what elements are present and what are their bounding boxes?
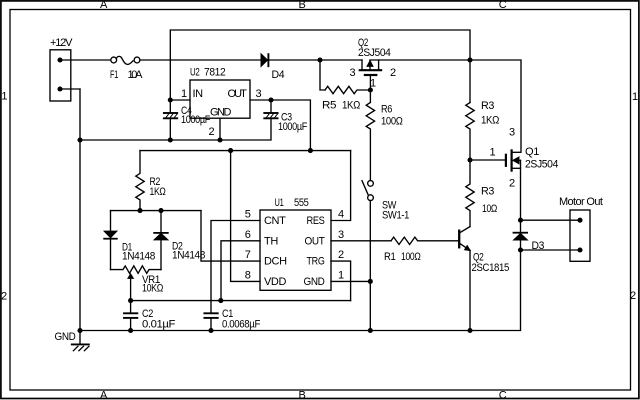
svg-text:0.0068µF: 0.0068µF (222, 319, 261, 331)
svg-text:2: 2 (1, 291, 7, 303)
switch SW1-1 (362, 181, 373, 201)
diode D4 (261, 54, 268, 66)
svg-text:3: 3 (338, 229, 344, 241)
svg-text:1: 1 (490, 147, 496, 159)
svg-text:Q1: Q1 (525, 146, 539, 158)
svg-text:VDD: VDD (264, 276, 286, 288)
svg-text:CNT: CNT (264, 215, 286, 227)
svg-text:7: 7 (245, 249, 251, 261)
svg-text:SW1-1: SW1-1 (382, 210, 409, 222)
wire R3 top lead from rail dot (469, 60, 471, 103)
wire U2 pin3 out (250, 100, 310, 151)
wire Q1 gate (470, 159, 505, 161)
resistor R3 1K (466, 103, 474, 161)
node dot Q2 gate R5 (368, 87, 373, 92)
svg-text:2SJ504: 2SJ504 (358, 47, 391, 59)
svg-text:0.01µF: 0.01µF (142, 319, 176, 331)
node dot D4 cathode rail (317, 57, 322, 62)
wire top loop from x=170 to x=470 (170, 30, 470, 100)
wire Q2 emitter to ground bus (469, 250, 471, 330)
svg-text:R6: R6 (381, 104, 392, 116)
wire +12V top terminal to fuse (60, 59, 111, 61)
svg-text:DCH: DCH (264, 256, 287, 268)
svg-text:6: 6 (245, 229, 251, 241)
svg-text:3: 3 (509, 127, 515, 139)
svg-text:3: 3 (256, 88, 262, 100)
wire U1 pin6 TH (221, 241, 260, 301)
node dot motor top (518, 218, 523, 223)
svg-text:555: 555 (294, 197, 309, 209)
node dot +12V bottom terminal (57, 86, 62, 91)
svg-text:4: 4 (338, 209, 344, 221)
diode D3 (514, 233, 528, 240)
svg-text:D4: D4 (272, 69, 285, 81)
ground symbol (72, 331, 89, 351)
node dot TH bus (218, 298, 223, 303)
capacitor C3 (264, 100, 277, 118)
svg-text:A: A (100, 0, 108, 11)
capacitor C2 (124, 301, 137, 331)
svg-text:1KΩ: 1KΩ (481, 115, 499, 127)
wire fuse to D4 anode (140, 59, 261, 61)
svg-text:1000µF: 1000µF (181, 114, 211, 126)
svg-text:TH: TH (264, 235, 278, 247)
wire +12V bottom terminal right (60, 88, 80, 90)
node dot rail VDD (228, 148, 233, 153)
svg-text:2SC1815: 2SC1815 (472, 262, 510, 274)
svg-text:A: A (100, 390, 108, 400)
svg-text:100Ω: 100Ω (401, 251, 421, 263)
wire D3 anode down corner to ground bus (470, 240, 521, 331)
node dot C1 bottom (208, 328, 213, 333)
svg-text:B: B (299, 0, 306, 11)
resistor R5 (325, 86, 370, 93)
svg-text:2: 2 (209, 126, 215, 138)
diode D2 (154, 211, 168, 270)
svg-text:1N4148: 1N4148 (172, 250, 205, 262)
node dot 555 gnd bus (368, 328, 373, 333)
svg-text:U1: U1 (275, 197, 284, 209)
node dot motor terminal top (577, 218, 582, 223)
wire motor out top (521, 219, 581, 221)
fuse F1 (111, 56, 140, 64)
svg-text:3: 3 (350, 67, 356, 79)
svg-text:GND: GND (304, 276, 325, 288)
svg-text:C: C (499, 0, 507, 11)
node dot R3 junction gate Q1 (467, 157, 472, 162)
svg-text:U2: U2 (190, 67, 200, 79)
capacitor C1 (204, 313, 217, 330)
wire ground bus (80, 330, 470, 332)
svg-text:GND: GND (210, 107, 231, 119)
svg-text:C: C (499, 390, 507, 400)
wire U1 pin1 GND (331, 280, 370, 282)
wire R5 left vertical from rail (320, 60, 325, 90)
svg-text:R5: R5 (322, 100, 336, 112)
svg-text:2SJ504: 2SJ504 (525, 159, 558, 171)
wire 12V rail y=150 (140, 150, 351, 152)
wire Q2 drain rail to corner x=521 (370, 60, 521, 152)
wire U1 pin3 OUT to R1 (331, 240, 391, 242)
svg-text:2: 2 (338, 249, 344, 261)
node dot C2 bottom (128, 328, 133, 333)
node dot motor terminal bottom (577, 247, 582, 252)
node dot x80 y140 (77, 137, 82, 142)
svg-text:TRG: TRG (307, 256, 325, 268)
svg-text:OUT: OUT (228, 88, 248, 100)
svg-text:10A: 10A (128, 69, 144, 81)
node dot 555 gnd (368, 279, 373, 284)
svg-text:R3: R3 (481, 100, 494, 112)
mosfet Q1 2SJ504 (506, 150, 521, 170)
wire ground bus y=140 (80, 119, 271, 140)
svg-text:8: 8 (245, 269, 251, 281)
diode D1 (104, 211, 117, 270)
wire U1 pin4 RES (331, 151, 351, 221)
wire U1 pin5 CNT to C1 (211, 221, 260, 313)
wire Q1 drain down through D3 (520, 160, 522, 232)
svg-text:R3: R3 (481, 186, 494, 198)
svg-text:10KΩ: 10KΩ (142, 283, 163, 295)
resistor R1 (391, 237, 458, 244)
svg-text:R1: R1 (384, 251, 396, 263)
capacitor C4 (164, 100, 177, 140)
wire diode anode bus y=210 (111, 210, 202, 212)
svg-text:RES: RES (307, 215, 325, 227)
wire U1 pin7 DCH (201, 211, 260, 262)
svg-text:OUT: OUT (305, 235, 326, 247)
transistor Q2 2SC1815 (459, 227, 470, 251)
resistor R6 (366, 90, 374, 181)
svg-text:100Ω: 100Ω (381, 116, 403, 128)
node dot rail top right (467, 57, 472, 62)
node dot C3 top (268, 97, 273, 102)
potentiometer VR1 (111, 266, 162, 301)
node dot motor bottom (518, 247, 523, 252)
node dot x80 ground bus (77, 328, 82, 333)
svg-text:+12V: +12V (50, 37, 73, 49)
connector Motor Out box (570, 210, 590, 261)
svg-text:Motor Out: Motor Out (559, 196, 603, 208)
node dot rail out (308, 148, 313, 153)
svg-text:1KΩ: 1KΩ (342, 100, 360, 112)
wire switch to 555 GND pin junction down to ground bus (369, 201, 371, 331)
svg-text:1: 1 (632, 91, 638, 103)
svg-text:10Ω: 10Ω (482, 203, 497, 215)
svg-text:2: 2 (630, 290, 636, 302)
IC U1 555 box (260, 210, 331, 290)
wire motor out bottom (521, 249, 581, 251)
node dot D2 top (158, 208, 163, 213)
node dot VR1 wiper bus (128, 298, 133, 303)
svg-text:1: 1 (1, 91, 7, 103)
svg-text:2: 2 (509, 178, 515, 190)
resistor R2 (136, 151, 144, 211)
wire x=80 down to ground bus (79, 89, 81, 331)
svg-text:1: 1 (181, 88, 187, 100)
node dot +12V top terminal (57, 57, 62, 62)
node dot emitter bus (467, 328, 472, 333)
wire U1 pin8 VDD (231, 151, 260, 282)
wire TRG/TH bus y=300 (131, 300, 351, 302)
wire U2 pin2 stub (219, 118, 221, 140)
transistor Q2 2SJ504 top (360, 60, 381, 90)
svg-text:B: B (299, 390, 306, 400)
svg-text:IN: IN (193, 88, 204, 100)
node dot R2 bottom (137, 208, 142, 213)
resistor R3 10 (466, 160, 474, 227)
IC U2 7812 box (190, 80, 250, 118)
svg-text:1: 1 (370, 78, 376, 90)
svg-text:D3: D3 (532, 240, 545, 252)
svg-text:5: 5 (245, 209, 251, 221)
svg-text:1000µF: 1000µF (278, 121, 308, 133)
node dot U2 pin2 ground (217, 137, 222, 142)
svg-text:GND: GND (55, 331, 76, 343)
wire U2 pin1 stub (170, 99, 190, 101)
svg-text:2: 2 (390, 67, 396, 79)
node dot C4 bottom (168, 137, 173, 142)
svg-text:F1: F1 (110, 69, 118, 81)
svg-text:1: 1 (338, 269, 344, 281)
svg-text:7812: 7812 (204, 67, 226, 79)
svg-text:1N4148: 1N4148 (122, 251, 155, 263)
wire D4 cathode to Q2 source stub (269, 59, 362, 61)
node dot C4 top (168, 97, 173, 102)
connector +12V box (50, 50, 71, 101)
wire U1 pin2 TRG (331, 261, 351, 301)
svg-text:1KΩ: 1KΩ (150, 186, 166, 198)
